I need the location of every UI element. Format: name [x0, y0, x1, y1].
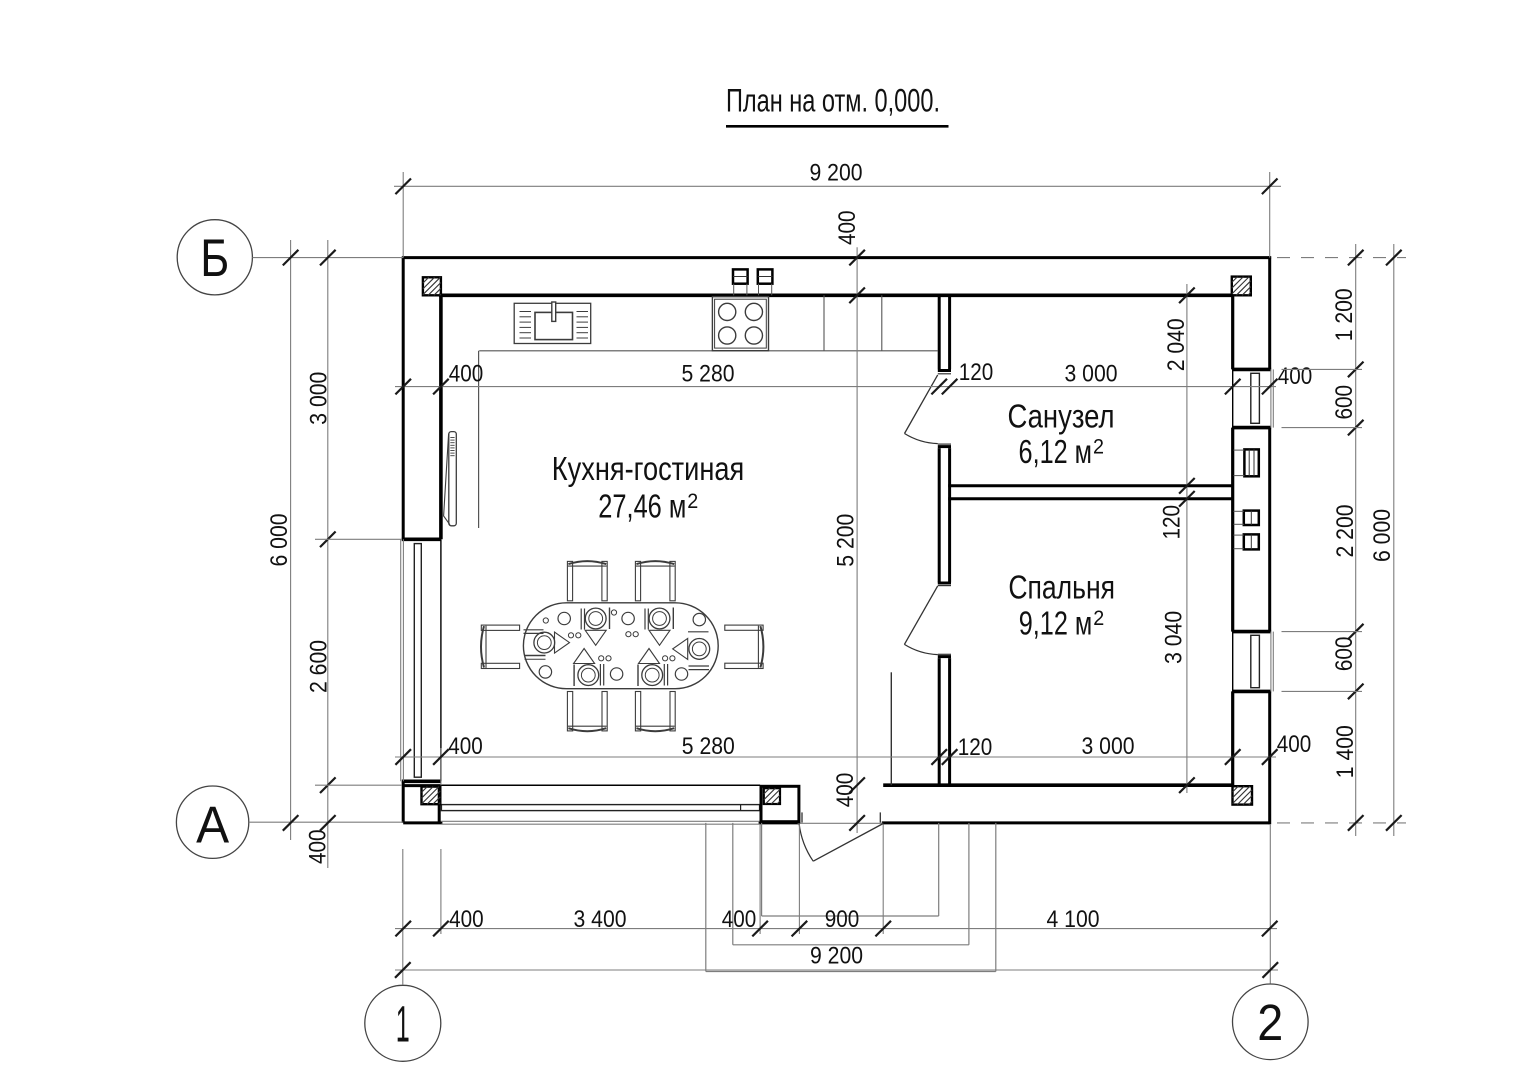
entrance door right frame mark [879, 812, 881, 822]
dim right chain text 1400 [1332, 725, 1359, 778]
bedroom window outer sill lines [1271, 632, 1273, 692]
dim chain bottom ticks [395, 921, 1277, 937]
dim mid text 5200 [833, 514, 860, 567]
bath-bedroom wall top line [948, 484, 1232, 487]
outer wall right above bath window [1268, 256, 1271, 369]
dim 6000 right ticks [1386, 250, 1402, 831]
svg-text:2 200: 2 200 [1332, 505, 1359, 558]
label bathroom [1008, 397, 1115, 434]
dim right chain ticks [1348, 250, 1364, 831]
entrance door leaf [813, 824, 883, 862]
svg-text:3 000: 3 000 [306, 372, 333, 425]
bath vent duct [1234, 449, 1259, 476]
left window outer sill lines [401, 539, 404, 781]
svg-text:600: 600 [1331, 637, 1358, 672]
entrance pier hatched square [764, 788, 780, 804]
chair top 2 [635, 561, 675, 601]
partition segment B bottom cap [938, 582, 951, 585]
svg-text:400: 400 [448, 733, 483, 760]
dim 6000 left line [290, 240, 292, 840]
svg-text:Кухня-гостиная: Кухня-гостиная [552, 450, 744, 487]
dim 9200 top text [810, 160, 863, 187]
bath door top frame line [938, 373, 951, 375]
inner wall face bottom right of door [883, 783, 1233, 787]
dim 9200 top line [394, 185, 1281, 187]
dim chain lower extension L [440, 748, 442, 785]
column bottom-left hatched square [422, 787, 441, 805]
dim mid vertical line [856, 247, 858, 833]
entrance pier block outline [761, 786, 799, 821]
svg-text:9 200: 9 200 [810, 943, 863, 970]
inner wall face top (kitchen+bath) [439, 293, 1232, 297]
dim chain upper text 3000 [1065, 361, 1118, 388]
left window bottom jamb cap [402, 779, 441, 783]
dim 6000 left text [266, 514, 293, 567]
svg-text:120: 120 [1159, 505, 1186, 540]
svg-text:3 040: 3 040 [1161, 611, 1188, 664]
svg-text:9,12 м: 9,12 м [1019, 605, 1093, 642]
left window glazing frame [414, 544, 421, 778]
dim left chain line [327, 240, 329, 868]
bedroom door leaf [904, 586, 937, 645]
partition segment A right line [948, 295, 951, 369]
kitchen stove [712, 297, 768, 351]
dim 9200 top extension right [1269, 172, 1271, 258]
dim bath chain text 3040 [1161, 611, 1188, 664]
svg-text:900: 900 [825, 906, 860, 933]
label kitchen area value [598, 488, 698, 525]
bedroom window top jamb cap [1232, 630, 1271, 634]
inner wall face right between windows [1231, 428, 1234, 632]
svg-text:План на отм. 0,000.: План на отм. 0,000. [726, 83, 940, 119]
outer wall bottom right segment [882, 821, 1270, 824]
svg-text:400: 400 [305, 830, 332, 865]
svg-text:400: 400 [832, 773, 859, 808]
outer wall right between windows [1268, 428, 1271, 632]
svg-text:120: 120 [958, 734, 993, 761]
left window top jamb cap [402, 537, 441, 541]
svg-text:9 200: 9 200 [810, 160, 863, 187]
outer wall left (above window) [402, 258, 405, 540]
outer wall left (below window) [402, 781, 405, 823]
partition segment C right line [948, 658, 951, 787]
bath window top jamb cap [1232, 368, 1271, 372]
svg-text:600: 600 [1331, 385, 1358, 420]
dim 9200 bottom line [395, 969, 1278, 971]
kitchen vent duct 2 [758, 269, 773, 295]
svg-text:400: 400 [449, 906, 484, 933]
axis circle Б [177, 220, 252, 295]
svg-text:400: 400 [722, 906, 757, 933]
dim chain lower text 120 [958, 734, 993, 761]
column bottom-left block outline [403, 785, 441, 823]
dim bath chain text 120 [1159, 505, 1186, 540]
bath window glazing frame [1251, 373, 1260, 423]
column top-right [1232, 277, 1251, 296]
chair right [725, 625, 764, 668]
dim 6000 right line [1393, 244, 1395, 836]
bedroom door bottom frame line [938, 653, 951, 655]
table plates [534, 608, 710, 685]
dim chain lower line [395, 756, 1276, 758]
outer wall bottom pier segment [759, 821, 799, 824]
dim left chain text 3000 [306, 372, 333, 425]
dim chain upper ticks [395, 379, 1277, 395]
bedroom vent duct 2 [1234, 534, 1259, 549]
dim bath chain ticks [1179, 288, 1195, 794]
dim chain upper line [395, 386, 1276, 388]
dim chain upper text 400 right [1278, 363, 1313, 390]
svg-text:120: 120 [959, 359, 994, 386]
axis circle 2 [1233, 984, 1309, 1060]
outer wall boundary top [402, 256, 1271, 259]
outer wall right below bedroom window [1268, 691, 1271, 824]
porch step 1 [762, 823, 939, 916]
dim chain bottom ext 440 [440, 849, 442, 934]
svg-text:1 200: 1 200 [1331, 288, 1358, 341]
dim chain bottom ext 760 [759, 824, 761, 934]
bath-bedroom wall bottom line [948, 497, 1232, 500]
dim chain lower text 5280 [682, 733, 735, 760]
bath window bottom jamb cap [1232, 426, 1271, 430]
bedroom vent duct 1 [1234, 511, 1259, 525]
dim chain bottom line [395, 928, 1277, 930]
bedroom window glazing frame [1251, 635, 1260, 687]
partition segment B top cap [938, 445, 951, 448]
dim chain bottom text 4100 [1047, 906, 1100, 933]
dim left chain ticks [320, 250, 336, 831]
column bottom-right [1233, 786, 1253, 804]
table cutlery [524, 608, 710, 687]
axis line А right segment (dashed) [1277, 822, 1406, 824]
inner wall face right above bath window [1231, 295, 1234, 369]
svg-text:Спальня: Спальня [1008, 569, 1115, 606]
dim bath chain line [1186, 284, 1188, 793]
dim 9200 bottom text [810, 943, 863, 970]
dim chain lower ticks [395, 749, 1277, 765]
chair bottom 1 [567, 692, 607, 732]
title underline [726, 125, 949, 128]
bedroom window bottom jamb cap [1232, 690, 1271, 694]
label bedroom area value [1019, 605, 1104, 642]
dim chain bottom text 400a [449, 906, 484, 933]
dim right chain ext lines [1282, 369, 1363, 691]
dim chain lower text 400 [448, 733, 483, 760]
axis line А [249, 821, 403, 823]
partition segment A left line [938, 295, 941, 369]
svg-text:2: 2 [687, 490, 698, 513]
dim right chain text 1200 [1331, 288, 1358, 341]
inner wall face right below bedroom window [1231, 691, 1234, 786]
bedroom door top frame line [938, 585, 951, 587]
svg-text:2 600: 2 600 [306, 640, 333, 693]
chair left [481, 625, 520, 668]
table cups [539, 612, 705, 680]
kitchen counter divider 1 [823, 295, 825, 351]
axis circle 1 [365, 985, 441, 1061]
dim mid ticks [849, 250, 865, 831]
entrance door threshold line [798, 822, 884, 824]
svg-text:27,46 м: 27,46 м [598, 488, 686, 525]
dim mid text 400 bottom [832, 773, 859, 808]
partition segment B left line [938, 448, 941, 582]
axis line 1 [402, 849, 404, 985]
kitchen sink [514, 302, 591, 344]
inner wall face bottom across window (thin) [441, 784, 760, 786]
bath door bottom frame line [938, 443, 951, 445]
kitchen counter divider 2 [881, 295, 883, 351]
partition segment A end cap [938, 369, 951, 372]
bottom window glazing frame [441, 805, 759, 811]
dim chain bottom text 400b [722, 906, 757, 933]
svg-text:400: 400 [1277, 731, 1312, 758]
inner wall face right across bath window (thin) [1232, 369, 1234, 427]
svg-text:1 400: 1 400 [1332, 725, 1359, 778]
svg-text:5 280: 5 280 [682, 733, 735, 760]
dim right chain text 600a [1331, 385, 1358, 420]
svg-text:6,12 м: 6,12 м [1019, 433, 1093, 470]
svg-text:1: 1 [396, 996, 410, 1053]
dim 6000 right text [1369, 509, 1396, 562]
svg-text:400: 400 [449, 361, 484, 388]
dim left chain text 400 [305, 830, 332, 865]
svg-text:3 000: 3 000 [1065, 361, 1118, 388]
dining table [523, 603, 718, 689]
dim chain bottom text 900 [825, 906, 860, 933]
dim chain bottom ext 798 [798, 824, 800, 934]
partition segment C left line [938, 658, 941, 787]
dim mid text 400 top [834, 210, 861, 245]
entrance door left frame mark [801, 812, 803, 822]
dim chain upper text 120 [959, 359, 994, 386]
svg-text:2: 2 [1093, 607, 1104, 630]
dim chain bottom text 3400 [574, 906, 627, 933]
dim chain lower text 3000 [1082, 733, 1135, 760]
dim chain bottom ext 883 [882, 824, 884, 934]
svg-text:400: 400 [834, 210, 861, 245]
svg-text:2: 2 [1257, 994, 1283, 1051]
entrance door swing arc [799, 824, 813, 862]
inner wall face left across window (thin) [440, 539, 442, 781]
title text "План на отм. 0,000." [726, 83, 940, 119]
kitchen vent duct 1 [733, 269, 748, 295]
dim left chain ext window bottom [315, 784, 402, 786]
chair bottom 2 [635, 692, 675, 732]
wall panel on left wall [444, 432, 457, 526]
table napkin triangles [555, 630, 688, 663]
dim 9200 top ticks [395, 179, 1277, 195]
outer wall bottom left corner block segment [403, 821, 442, 824]
inner wall face right across bedroom window (thin) [1232, 632, 1234, 692]
dim bath chain text 2040 [1163, 318, 1190, 371]
dim right chain text 600b [1331, 637, 1358, 672]
bedroom door swing arc [904, 644, 937, 654]
kitchen counter front edge [479, 350, 938, 352]
axis line Б [253, 257, 404, 259]
bottom window center mullion mark [740, 805, 742, 811]
chair top 1 [567, 561, 607, 601]
dim 6000 left ticks [283, 250, 299, 831]
inner wall face left above window [439, 295, 443, 539]
bathroom door swing arc [905, 434, 938, 444]
partition segment C top cap [938, 655, 951, 658]
svg-text:Б: Б [200, 229, 229, 288]
svg-text:400: 400 [1278, 363, 1313, 390]
dim right chain text 2200 [1332, 505, 1359, 558]
svg-text:Санузел: Санузел [1008, 397, 1115, 434]
axis line 2 [1269, 825, 1271, 984]
dim chain upper text 5280 [682, 361, 735, 388]
label bedroom [1008, 569, 1115, 606]
axis circle А [176, 786, 248, 858]
table small rings [543, 610, 675, 661]
svg-text:4 100: 4 100 [1047, 906, 1100, 933]
bottom window outer sill lines [441, 821, 760, 824]
svg-text:5 200: 5 200 [833, 514, 860, 567]
dim 9200 bottom ticks [395, 962, 1278, 978]
svg-text:3 000: 3 000 [1082, 733, 1135, 760]
porch step 3 [706, 823, 996, 972]
kitchen zone boundary line [478, 351, 480, 528]
svg-text:2: 2 [1093, 436, 1104, 459]
dim left chain text 2600 [306, 640, 333, 693]
dim chain upper text 400 [449, 361, 484, 388]
svg-text:6 000: 6 000 [1369, 509, 1396, 562]
dim chain lower text 400 right [1277, 731, 1312, 758]
svg-text:2 040: 2 040 [1163, 318, 1190, 371]
partition segment B right line [948, 448, 951, 582]
wall line near entrance [890, 672, 892, 785]
dim right chain line [1355, 244, 1357, 836]
column top-left [423, 277, 441, 295]
axis line Б right segment (dashed) [1277, 257, 1406, 259]
bath window outer sill lines [1271, 369, 1273, 427]
svg-text:5 280: 5 280 [682, 361, 735, 388]
svg-text:А: А [196, 797, 229, 855]
dim 9200 top extension left [402, 172, 404, 258]
svg-text:3 400: 3 400 [574, 906, 627, 933]
svg-text:6 000: 6 000 [266, 514, 293, 567]
dim left chain ext window top [315, 538, 402, 540]
label bathroom area value [1019, 433, 1104, 470]
label kitchen-living room [552, 450, 744, 487]
bathroom door leaf [905, 375, 938, 434]
porch step 2 [733, 823, 969, 945]
